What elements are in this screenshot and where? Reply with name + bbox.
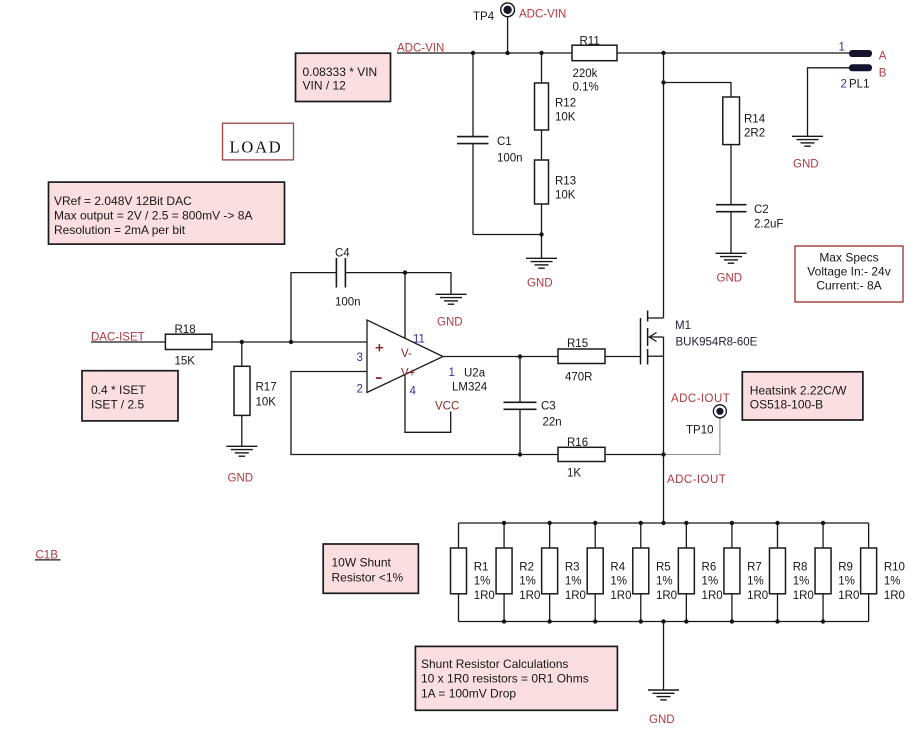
svg-text:1%: 1% bbox=[474, 576, 491, 588]
svg-text:DAC-ISET: DAC-ISET bbox=[91, 332, 145, 344]
svg-text:OS518-100-B: OS518-100-B bbox=[750, 398, 823, 412]
svg-text:1%: 1% bbox=[884, 576, 901, 588]
svg-text:1%: 1% bbox=[793, 576, 810, 588]
svg-text:TP4: TP4 bbox=[473, 11, 495, 23]
svg-text:Heatsink 2.22C/W: Heatsink 2.22C/W bbox=[750, 384, 847, 398]
svg-text:R10: R10 bbox=[884, 561, 905, 573]
svg-text:10K: 10K bbox=[256, 396, 277, 408]
svg-text:1%: 1% bbox=[747, 576, 764, 588]
svg-text:1R0: 1R0 bbox=[884, 590, 905, 602]
svg-text:Current:- 8A: Current:- 8A bbox=[816, 279, 881, 293]
svg-text:0.4 * ISET: 0.4 * ISET bbox=[91, 383, 146, 397]
svg-text:1A = 100mV Drop: 1A = 100mV Drop bbox=[421, 686, 516, 700]
svg-text:B: B bbox=[879, 68, 887, 80]
svg-text:11: 11 bbox=[413, 333, 425, 345]
svg-text:R17: R17 bbox=[256, 382, 277, 394]
svg-text:1K: 1K bbox=[567, 468, 581, 480]
svg-text:2R2: 2R2 bbox=[744, 128, 765, 140]
svg-text:10K: 10K bbox=[555, 189, 576, 201]
svg-text:C3: C3 bbox=[541, 401, 556, 413]
svg-text:220k: 220k bbox=[573, 68, 598, 80]
svg-text:R18: R18 bbox=[175, 324, 196, 336]
svg-text:LM324: LM324 bbox=[452, 382, 488, 394]
svg-text:R2: R2 bbox=[519, 561, 534, 573]
svg-text:ADC-VIN: ADC-VIN bbox=[397, 42, 444, 54]
svg-text:1R0: 1R0 bbox=[656, 590, 677, 602]
svg-text:10 x 1R0 resistors = 0R1 Ohms: 10 x 1R0 resistors = 0R1 Ohms bbox=[421, 672, 589, 686]
svg-text:R1: R1 bbox=[474, 561, 489, 573]
svg-text:R12: R12 bbox=[555, 98, 576, 110]
svg-text:GND: GND bbox=[793, 158, 819, 170]
svg-text:PL1: PL1 bbox=[849, 79, 869, 91]
svg-text:R9: R9 bbox=[838, 561, 853, 573]
svg-text:R14: R14 bbox=[744, 114, 766, 126]
svg-text:470R: 470R bbox=[565, 372, 593, 384]
svg-text:2.2uF: 2.2uF bbox=[754, 219, 783, 231]
svg-text:C2: C2 bbox=[754, 204, 769, 216]
svg-text:R11: R11 bbox=[580, 36, 600, 48]
svg-text:ISET / 2.5: ISET / 2.5 bbox=[91, 397, 144, 411]
svg-text:V+: V+ bbox=[401, 368, 416, 380]
svg-text:C1: C1 bbox=[497, 136, 512, 148]
svg-text:100n: 100n bbox=[497, 152, 523, 164]
svg-text:U2a: U2a bbox=[464, 368, 486, 380]
svg-text:A: A bbox=[879, 51, 887, 63]
svg-text:M1: M1 bbox=[675, 320, 691, 332]
svg-text:VCC: VCC bbox=[435, 401, 459, 413]
svg-text:GND: GND bbox=[717, 273, 743, 285]
svg-text:15K: 15K bbox=[175, 356, 196, 368]
svg-text:1%: 1% bbox=[702, 576, 719, 588]
svg-text:2: 2 bbox=[841, 79, 847, 91]
svg-text:100n: 100n bbox=[335, 297, 361, 309]
svg-text:Shunt Resistor Calculations: Shunt Resistor Calculations bbox=[421, 657, 568, 671]
svg-text:TP10: TP10 bbox=[686, 425, 714, 437]
svg-text:0.1%: 0.1% bbox=[573, 82, 599, 94]
svg-text:Resolution = 2mA per bit: Resolution = 2mA per bit bbox=[54, 223, 186, 237]
svg-text:Max Specs: Max Specs bbox=[819, 251, 878, 265]
svg-text:1%: 1% bbox=[565, 576, 582, 588]
svg-text:BUK954R8-60E: BUK954R8-60E bbox=[676, 337, 758, 349]
svg-text:1R0: 1R0 bbox=[747, 590, 768, 602]
svg-text:ADC-VIN: ADC-VIN bbox=[519, 9, 566, 21]
svg-text:1R0: 1R0 bbox=[793, 590, 814, 602]
svg-text:VIN / 12: VIN / 12 bbox=[303, 79, 347, 93]
svg-text:4: 4 bbox=[410, 386, 417, 398]
svg-text:1%: 1% bbox=[519, 576, 536, 588]
svg-text:1: 1 bbox=[449, 367, 455, 379]
svg-text:0.08333 * VIN: 0.08333 * VIN bbox=[303, 65, 378, 79]
svg-text:R4: R4 bbox=[610, 561, 625, 573]
svg-text:R13: R13 bbox=[555, 176, 576, 188]
svg-text:1: 1 bbox=[839, 42, 845, 54]
svg-text:Resistor <1%: Resistor <1% bbox=[332, 570, 404, 584]
svg-text:ADC-IOUT: ADC-IOUT bbox=[667, 474, 726, 486]
svg-text:V-: V- bbox=[401, 348, 412, 360]
svg-text:1R0: 1R0 bbox=[519, 590, 540, 602]
svg-text:1%: 1% bbox=[610, 576, 627, 588]
svg-text:10W Shunt: 10W Shunt bbox=[332, 556, 392, 570]
svg-text:R6: R6 bbox=[702, 561, 717, 573]
svg-text:R16: R16 bbox=[567, 437, 588, 449]
svg-text:R3: R3 bbox=[565, 561, 580, 573]
svg-text:GND: GND bbox=[228, 472, 254, 484]
svg-text:VRef = 2.048V 12Bit DAC: VRef = 2.048V 12Bit DAC bbox=[54, 194, 192, 208]
svg-text:C4: C4 bbox=[335, 248, 350, 260]
svg-text:R15: R15 bbox=[567, 338, 588, 350]
svg-text:LOAD: LOAD bbox=[230, 137, 283, 156]
svg-text:Max output = 2V / 2.5 = 800mV: Max output = 2V / 2.5 = 800mV -> 8A bbox=[54, 209, 252, 223]
svg-text:ADC-IOUT: ADC-IOUT bbox=[671, 393, 730, 405]
svg-text:GND: GND bbox=[437, 317, 463, 329]
svg-text:1R0: 1R0 bbox=[610, 590, 631, 602]
svg-text:22n: 22n bbox=[543, 417, 562, 429]
svg-text:2: 2 bbox=[357, 383, 363, 395]
svg-text:10K: 10K bbox=[555, 112, 576, 124]
svg-text:Voltage In:- 24v: Voltage In:- 24v bbox=[807, 265, 890, 279]
svg-text:1R0: 1R0 bbox=[565, 590, 586, 602]
svg-text:3: 3 bbox=[357, 352, 363, 364]
svg-text:1R0: 1R0 bbox=[474, 590, 495, 602]
svg-text:R5: R5 bbox=[656, 561, 671, 573]
svg-text:R8: R8 bbox=[793, 561, 808, 573]
svg-text:1%: 1% bbox=[656, 576, 673, 588]
svg-text:GND: GND bbox=[527, 278, 553, 290]
svg-text:R7: R7 bbox=[747, 561, 762, 573]
svg-text:1R0: 1R0 bbox=[838, 590, 859, 602]
svg-text:1R0: 1R0 bbox=[702, 590, 723, 602]
svg-text:1%: 1% bbox=[838, 576, 855, 588]
svg-text:GND: GND bbox=[649, 714, 675, 726]
